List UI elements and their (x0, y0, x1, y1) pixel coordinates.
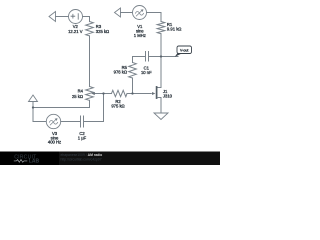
resistor R1 (157, 22, 165, 34)
wire flag F1 to V1 (121, 12, 133, 14)
wire C1 right to node (149, 56, 161, 58)
svg-text:http://circuitlab.com/c4zp97: http://circuitlab.com/c4zp97 (61, 157, 102, 161)
potentiometer R4 (86, 87, 94, 101)
wire node to J1 drain (157, 57, 161, 88)
wire V3 right to C2 (61, 121, 81, 123)
resistor R2 (112, 90, 128, 96)
resistor R3 (86, 22, 94, 36)
wire C1 left node (133, 57, 146, 63)
svg-text:12.21 V: 12.21 V (68, 29, 83, 34)
J1 gate arrow (152, 92, 155, 95)
wire V2 to R3 (83, 17, 90, 22)
watermark bar (0, 152, 220, 166)
transistor J1 channel (156, 87, 158, 98)
svg-text:1 MHz: 1 MHz (134, 33, 146, 38)
flag F1 (left-pointing triangle at V1) (115, 8, 121, 17)
voltage source V3 (sine) (46, 114, 60, 128)
voltage source V1 (sine) (133, 6, 147, 20)
svg-text:9.91 kΩ: 9.91 kΩ (167, 27, 182, 32)
J1 source lead (157, 98, 161, 100)
svg-text:1 µF: 1 µF (78, 135, 87, 140)
wire wiper node down to bottom row (84, 94, 104, 122)
wire R3 to R4 rail (89, 36, 91, 87)
svg-text:400 Hz: 400 Hz (48, 140, 61, 145)
antenna (29, 95, 38, 102)
svg-text:976 kΩ: 976 kΩ (114, 69, 127, 74)
wire bottom row V3 left (33, 121, 46, 123)
flag F2 (left-pointing triangle at V2) (49, 12, 56, 22)
svg-text:325 kΩ: 325 kΩ (96, 29, 109, 34)
wire R1 to node (160, 34, 162, 57)
wire wiper node to R2 (104, 93, 112, 95)
voltage source V2 (69, 10, 83, 24)
R4 wiper arrow (95, 93, 104, 95)
svg-text:LAB: LAB (29, 159, 40, 165)
wire V1 to R1 (147, 13, 162, 22)
wire R4 bottom to antenna row (33, 100, 90, 107)
svg-text:25 kΩ: 25 kΩ (72, 94, 83, 99)
wire R2 to gate node (127, 93, 133, 95)
wire node to V-out (161, 56, 178, 58)
resistor R5 (129, 63, 137, 79)
svg-text:J310: J310 (163, 94, 173, 99)
svg-text:10 nF: 10 nF (141, 70, 152, 75)
flag V-out (177, 46, 192, 54)
labels (48, 22, 189, 145)
J1 gate wire (133, 93, 152, 95)
capacitor C2 (81, 116, 84, 127)
svg-text:975 kΩ: 975 kΩ (111, 104, 124, 109)
svg-text:V-out: V-out (180, 49, 188, 53)
junction dots (32, 106, 34, 108)
capacitor C1 (146, 52, 149, 62)
ground (160, 99, 162, 113)
wire R5 to gate node (132, 78, 134, 94)
wire flag F2 to V2 (56, 16, 69, 18)
